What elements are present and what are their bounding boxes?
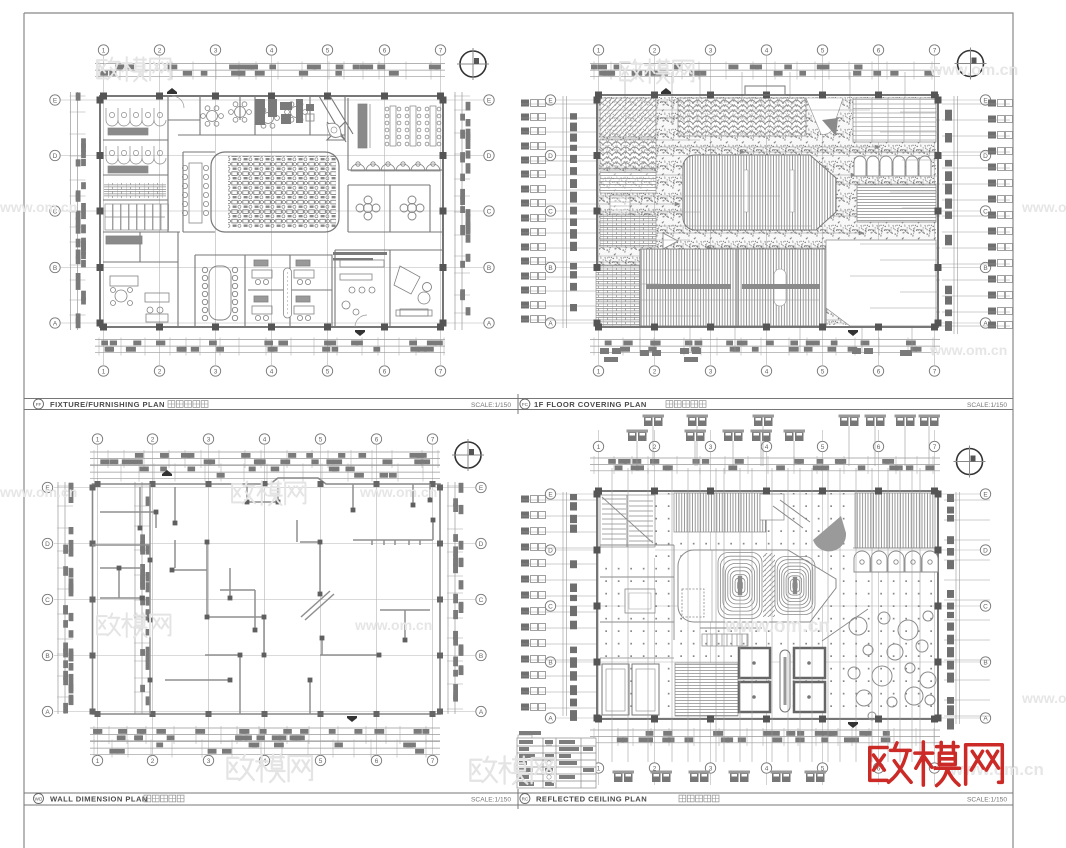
plan FF corridor hatch [104, 183, 166, 198]
svg-text:B: B [53, 265, 57, 272]
plan FF right dimension band [454, 92, 470, 330]
svg-text:WD: WD [35, 797, 43, 802]
plan RC fixture stems top [637, 426, 929, 466]
plan FC row bubble E [545, 95, 990, 105]
watermark logo outline 5 [227, 754, 312, 782]
title strip lines top [24, 394, 1013, 414]
svg-text:2: 2 [158, 368, 162, 375]
plan RC circles diagonal wall [700, 609, 868, 641]
plan FC row bubble A [545, 318, 990, 328]
svg-text:1: 1 [597, 765, 601, 772]
svg-text:A: A [548, 715, 553, 722]
plan WD grid bubbles top [92, 434, 437, 444]
plan FF entry arrow top [167, 88, 177, 94]
watermark logo outline 4 [97, 613, 170, 637]
svg-text:SCALE:1/150: SCALE:1/150 [967, 402, 1007, 409]
svg-text:RC: RC [522, 797, 529, 802]
plan FC vertical leader stems [625, 72, 912, 352]
plan FC corridor arrow [663, 233, 678, 249]
plan FC grid bubbles bottom [593, 366, 939, 376]
plan FC top dimension band [590, 62, 940, 80]
plan FC entry arrow top [661, 88, 671, 94]
plan FC grid bubbles top [593, 45, 939, 55]
plan FF petal table rooms [356, 196, 424, 220]
svg-text:1: 1 [96, 436, 100, 443]
plan WD right dimension band [447, 482, 463, 714]
plan FF building exterior wall [100, 96, 443, 327]
plan FF column squares [97, 93, 447, 331]
svg-text:4: 4 [765, 47, 769, 54]
plan FF left dimension band [70, 92, 86, 330]
plan RC row bubble E [545, 489, 990, 499]
svg-text:2: 2 [151, 436, 155, 443]
plan WD north compass [452, 439, 484, 471]
svg-text:A: A [479, 709, 484, 716]
plan RC top dimension band [590, 456, 940, 474]
svg-text:6: 6 [877, 368, 881, 375]
svg-text:7: 7 [431, 436, 435, 443]
plan RC diag corridor lines [773, 500, 810, 528]
svg-text:B: B [548, 659, 552, 666]
plan RC whirl left [718, 553, 762, 619]
svg-text:E: E [53, 97, 58, 104]
red OMW logo [870, 742, 1003, 786]
svg-text:FC: FC [522, 402, 529, 407]
plan RC building exterior wall [597, 491, 938, 719]
svg-text:FIXTURE/FURNISHING PLAN: FIXTURE/FURNISHING PLAN [50, 400, 165, 409]
plan FC left rooms stripes [600, 171, 656, 193]
plan RC dark framed panels [739, 648, 825, 712]
plan FC left annotation stack [521, 96, 597, 328]
plan FF booth row [351, 162, 440, 171]
svg-text:1: 1 [597, 47, 601, 54]
svg-text:6: 6 [375, 436, 379, 443]
plan FC awning arch row right [853, 152, 936, 176]
svg-text:REFLECTED CEILING PLAN: REFLECTED CEILING PLAN [536, 795, 647, 804]
plan FF row bubble B [50, 262, 494, 272]
plan FF lockers left [105, 204, 169, 230]
plan FC left stair [610, 195, 630, 223]
plan RC column squares [594, 488, 942, 723]
svg-text:D: D [45, 541, 50, 548]
svg-text:E: E [983, 97, 988, 104]
svg-text:C: C [548, 208, 553, 215]
plan RC row bubble A [545, 713, 990, 723]
svg-text:SCALE:1/150: SCALE:1/150 [471, 796, 511, 803]
plan RC vertical grid lines [599, 430, 935, 785]
plan FF small offices [252, 260, 314, 321]
plan FC horizontal grid lines [556, 100, 980, 323]
svg-text:D: D [983, 547, 988, 554]
plan FC left rooms hatch [600, 98, 656, 137]
plan FF vertical grid lines [104, 56, 441, 365]
plan FC right annotation stack [942, 96, 1013, 334]
svg-text:E: E [548, 491, 553, 498]
svg-text:A: A [983, 715, 988, 722]
plan FC stipple floor base [599, 97, 936, 325]
plan FC plank floor top-right [853, 98, 936, 142]
svg-text:2: 2 [653, 368, 657, 375]
plan RC bottom-left diffuser panels [600, 658, 674, 715]
plan WD vertical grid lines [98, 445, 433, 754]
title bar FC [520, 399, 1007, 409]
plan WD building exterior wall [93, 478, 441, 714]
svg-text:4: 4 [765, 444, 769, 451]
svg-text:5: 5 [326, 368, 330, 375]
plan FC row bubble C [545, 206, 990, 216]
plan WD top dimension band row2 [90, 464, 440, 482]
plan RC top slat band [674, 493, 766, 532]
plan RC top-right slats [855, 493, 935, 548]
plan WD row bubble E [42, 482, 486, 492]
svg-text:2: 2 [653, 47, 657, 54]
plan FF north compass [457, 48, 489, 80]
svg-text:www.om.cn: www.om.cn [354, 617, 432, 633]
svg-text:7: 7 [933, 368, 937, 375]
plan RC grid bubbles bottom [593, 763, 939, 773]
svg-text:4: 4 [270, 47, 274, 54]
plan RC row bubble B [545, 657, 990, 667]
plan WD horizontal grid lines [54, 488, 475, 712]
svg-text:www.om.cn: www.om.cn [0, 199, 77, 215]
svg-text:www.om.cn: www.om.cn [929, 342, 1007, 358]
plan FC scallop band stipple overlay [678, 98, 806, 136]
svg-text:4: 4 [765, 765, 769, 772]
plan FC row bubble D [545, 150, 990, 160]
plan WD inner left band [134, 482, 150, 714]
svg-text:A: A [487, 320, 492, 327]
plan WD bottom dimension band row2 [90, 740, 440, 758]
watermark logo outline 1 [97, 57, 170, 81]
svg-text:B: B [548, 265, 552, 272]
svg-text:E: E [983, 491, 988, 498]
plan WD row bubble A [42, 706, 486, 716]
svg-text:5: 5 [821, 444, 825, 451]
watermark logo outline 2 [620, 59, 693, 83]
plan WD right small legend [518, 735, 532, 787]
plan RC mid-left panel [625, 589, 655, 613]
svg-text:1: 1 [102, 47, 106, 54]
svg-text:1: 1 [597, 368, 601, 375]
plan FF kitchen equipment top [255, 99, 314, 125]
svg-text:D: D [983, 153, 988, 160]
plan RC stairs mid [702, 634, 748, 646]
plan FF diagonal corridor wall top [319, 96, 353, 142]
svg-text:D: D [487, 153, 492, 160]
plan FF bottom dimension band [95, 338, 445, 356]
plan FF doors [172, 96, 367, 327]
plan FC building exterior wall [597, 95, 938, 327]
svg-text:6: 6 [383, 47, 387, 54]
svg-text:6: 6 [877, 444, 881, 451]
plan FF reception right [340, 260, 432, 316]
plan FC top entry vestibule [745, 86, 785, 95]
svg-text:A: A [53, 320, 58, 327]
svg-text:C: C [45, 597, 50, 604]
plan RC fixture legend row top2 [627, 430, 806, 442]
plan FC bottom right plain [826, 240, 936, 326]
plan FF top dimension band [95, 62, 445, 80]
svg-text:E: E [479, 485, 484, 492]
svg-text:3: 3 [214, 368, 218, 375]
svg-text:www.om.cn: www.om.cn [724, 616, 830, 637]
plan FF interior partition walls [103, 96, 443, 327]
svg-text:3: 3 [207, 758, 211, 765]
plan WD grid bubbles bottom [92, 755, 437, 765]
plan RC horizontal grid lines [556, 494, 980, 718]
svg-text:www.om.cn: www.om.cn [359, 484, 437, 500]
plan FF office lower left [106, 236, 169, 322]
title bar RC [520, 794, 1007, 804]
svg-text:6: 6 [383, 368, 387, 375]
svg-text:C: C [983, 603, 988, 610]
plan RC fixture legend row top [643, 415, 941, 427]
plan RC row bubble C [545, 601, 990, 611]
plan RC left panel in hall [682, 589, 704, 617]
svg-text:7: 7 [439, 368, 443, 375]
plan RC mid-left walls [600, 545, 674, 640]
title bar FF [34, 399, 512, 409]
plan RC row bubble D [545, 545, 990, 555]
plan RC whirl divider hatch [763, 553, 775, 617]
plan FC bottom-left brick [596, 265, 640, 326]
title strip lines bottom [24, 789, 1013, 809]
plan WD column markers [90, 481, 444, 717]
svg-text:3: 3 [709, 368, 713, 375]
svg-text:B: B [479, 653, 483, 660]
plan RC central whirl container [678, 550, 836, 622]
plan WD interior partitions [92, 484, 433, 714]
svg-text:C: C [487, 208, 492, 215]
svg-text:5: 5 [326, 47, 330, 54]
plan RC bottom dimension band [590, 728, 940, 746]
plan FF row bubble A [50, 318, 494, 328]
plan FF grid bubbles top [98, 45, 445, 55]
watermark logo outline 3 [232, 481, 305, 505]
plan WD entry arrow top [162, 470, 172, 476]
svg-text:SCALE:1/150: SCALE:1/150 [967, 796, 1007, 803]
plan FF long table left [182, 163, 208, 223]
plan WD bottom dimension band [90, 726, 440, 744]
plan FC row bubble B [545, 262, 990, 272]
plan FF furniture central hall [228, 156, 336, 228]
svg-text:1F FLOOR COVERING PLAN: 1F FLOOR COVERING PLAN [534, 400, 647, 409]
svg-text:1: 1 [96, 758, 100, 765]
plan FF lounge circle [423, 283, 432, 292]
svg-text:C: C [983, 208, 988, 215]
svg-text:D: D [548, 547, 553, 554]
svg-text:1: 1 [597, 444, 601, 451]
svg-text:3: 3 [709, 444, 713, 451]
plan RC long droppers [612, 468, 920, 762]
plan FF horizontal grid lines [61, 100, 483, 323]
svg-text:www.om.cn: www.om.cn [1021, 199, 1066, 215]
plan FC bottom-center wood rooms [640, 249, 826, 326]
plan FF entry arrow bottom [355, 330, 365, 336]
svg-text:2: 2 [151, 758, 155, 765]
plan FC column squares [594, 92, 942, 331]
svg-text:C: C [548, 603, 553, 610]
plan FF central hall rounded wall [211, 152, 339, 232]
svg-text:B: B [983, 659, 987, 666]
plan FC leader arrows right [707, 118, 940, 314]
plan FC entry arrow bottom [848, 330, 858, 336]
plan RC small box right of slats [760, 494, 784, 520]
svg-text:www.om.cn: www.om.cn [929, 62, 1018, 79]
plan FC scallop carpet top-center [678, 98, 806, 136]
svg-text:www.om.cn: www.om.cn [1021, 690, 1066, 706]
plan RC awning arch row right [853, 548, 938, 572]
svg-text:FF: FF [36, 402, 42, 407]
svg-text:B: B [983, 265, 987, 272]
plan FC below-band fixture blocks [600, 348, 912, 362]
svg-text:C: C [479, 597, 484, 604]
plan FC left room dense [600, 215, 656, 247]
plan FC extra leaders [598, 110, 938, 316]
svg-text:www.om.cn: www.om.cn [0, 484, 77, 500]
plan FF restroom stalls [106, 108, 166, 173]
plan WD row bubble C [42, 594, 486, 604]
svg-text:E: E [548, 97, 553, 104]
plan RC whirl right [775, 557, 815, 615]
plan FC north compass [955, 48, 987, 80]
svg-text:D: D [479, 541, 484, 548]
svg-text:2: 2 [158, 47, 162, 54]
plan FC right mid rooms [857, 185, 936, 222]
plan FC leader arrows left [598, 116, 887, 322]
legend table [517, 738, 596, 788]
svg-text:3: 3 [207, 436, 211, 443]
svg-text:B: B [487, 265, 491, 272]
plan FF row bubble D [50, 150, 494, 160]
plan RC circles cluster [848, 611, 936, 720]
svg-text:A: A [45, 709, 50, 716]
plan FC central hall wood floor [683, 155, 836, 230]
watermark logo outline 6 [470, 756, 555, 784]
svg-text:1: 1 [102, 368, 106, 375]
svg-text:7: 7 [439, 47, 443, 54]
plan FF row bubble C [50, 206, 494, 216]
plan RC bottom stair stripes [675, 663, 738, 716]
svg-text:5: 5 [821, 47, 825, 54]
svg-text:4: 4 [263, 436, 267, 443]
plan FC dark triangle top [822, 118, 838, 136]
plan WD left dimension band [57, 482, 73, 714]
plan WD row bubble B [42, 650, 486, 660]
plan RC grid bubbles top [593, 441, 939, 451]
plan WD partition end caps [117, 498, 436, 683]
plan WD row bubble D [42, 538, 486, 548]
plan FF triangle nook [327, 123, 341, 137]
svg-text:4: 4 [765, 368, 769, 375]
plan FC white pocket top [806, 98, 843, 134]
svg-text:D: D [548, 153, 553, 160]
svg-text:6: 6 [877, 47, 881, 54]
plan FC left rooms stipple overlay [600, 98, 656, 248]
svg-text:5: 5 [821, 368, 825, 375]
svg-text:7: 7 [431, 758, 435, 765]
svg-text:5: 5 [319, 758, 323, 765]
plan FF grid bubbles bottom [98, 366, 445, 376]
svg-text:SCALE:1/150: SCALE:1/150 [471, 402, 511, 409]
plan FC vertical grid lines [599, 56, 935, 365]
plan FC bottom dimension band [590, 338, 940, 356]
plan RC ceiling dots field [599, 493, 936, 717]
plan RC gray leaf [813, 516, 846, 551]
plan FF reception counter bars [333, 252, 387, 261]
svg-text:6: 6 [375, 758, 379, 765]
plan FF row bubble E [50, 95, 494, 105]
svg-text:D: D [53, 153, 58, 160]
plan WD top dimension band [90, 450, 440, 468]
svg-text:7: 7 [933, 444, 937, 451]
svg-text:3: 3 [709, 47, 713, 54]
plan RC left annotation stack [521, 492, 597, 721]
plan WD entry arrow bottom [347, 716, 357, 722]
svg-text:WALL DIMENSION PLAN: WALL DIMENSION PLAN [50, 795, 148, 804]
svg-text:4: 4 [270, 368, 274, 375]
svg-text:3: 3 [214, 47, 218, 54]
svg-text:7: 7 [933, 47, 937, 54]
plan FC left rooms scale [600, 139, 656, 169]
svg-text:A: A [548, 320, 553, 327]
title bar WD [34, 794, 512, 804]
plan RC top-left stairs [600, 493, 655, 558]
svg-text:E: E [487, 97, 492, 104]
svg-text:5: 5 [319, 436, 323, 443]
plan FF office center capsule [284, 268, 292, 318]
plan FF training room rows [358, 104, 441, 148]
plan RC fixture legend row bottom [613, 771, 827, 783]
plan FF dining tables top [201, 102, 308, 128]
plan RC entry arrow bottom [848, 722, 858, 728]
plan FF meeting room table [202, 266, 237, 321]
svg-text:B: B [45, 653, 49, 660]
plan RC north compass [954, 446, 986, 478]
plan RC right annotation stack [944, 492, 990, 730]
